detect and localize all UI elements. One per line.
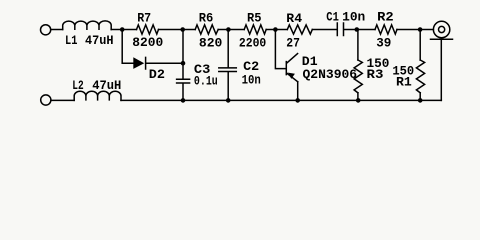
svg-text:2200: 2200 <box>239 35 267 50</box>
wire D2 cathode to node G <box>147 62 184 64</box>
wire node A down to D2 anode <box>122 30 133 64</box>
svg-text:10n: 10n <box>342 10 365 25</box>
wire node F down to R1 <box>419 30 421 61</box>
inductor L2 <box>74 91 121 100</box>
terminal J3 (bottom-left input connector) <box>41 95 51 105</box>
node L junction dot (R1/bottom rail) <box>418 98 423 103</box>
resistor R5 <box>244 25 266 34</box>
svg-text:L1: L1 <box>65 33 78 48</box>
wire node C down to C2 <box>227 30 229 68</box>
node G junction dot (D2/C3 column) <box>181 61 186 66</box>
inductor L1 <box>63 21 111 30</box>
resistor R4 <box>287 25 312 34</box>
svg-text:D2: D2 <box>149 67 165 82</box>
resistor R3 (vertical) <box>354 60 362 93</box>
svg-text:R2: R2 <box>377 10 394 25</box>
wire R6 to node C <box>218 29 244 31</box>
resistor R2 <box>375 25 397 34</box>
wire R3 to bottom rail <box>357 93 359 101</box>
wire node B down through node G to C3 <box>182 30 184 79</box>
svg-text:8200: 8200 <box>132 35 163 50</box>
wire J2 ground down to bottom rail <box>440 40 442 101</box>
wire Q1 emitter to bottom rail <box>297 82 299 101</box>
transistor D1 emitter arrowhead <box>288 73 295 79</box>
wire L1 to node A <box>111 29 136 31</box>
diode D2 cathode bar <box>145 57 147 69</box>
svg-text:R3: R3 <box>367 67 384 82</box>
wire bottom terminal to L2 <box>51 99 74 101</box>
node C junction dot (R6/R5/C2) <box>226 27 231 32</box>
node K junction dot (R3/bottom rail) <box>356 98 361 103</box>
wire R2 to node F <box>397 29 433 31</box>
svg-text:L2: L2 <box>72 78 84 93</box>
node A junction dot (L1/R7/D2) <box>120 27 125 32</box>
connector J2 ground bar <box>431 38 453 40</box>
transistor D1 collector stroke (open) <box>287 54 298 63</box>
wire C3 to bottom rail <box>182 84 184 101</box>
node I junction dot (C2/bottom rail) <box>226 98 231 103</box>
wire R1 to bottom rail <box>419 93 421 101</box>
wire node D down to Q1 base <box>275 30 285 69</box>
svg-text:47uH: 47uH <box>85 33 114 48</box>
capacitor C2 plates <box>219 68 237 72</box>
node D junction dot (R5/R4/Q base) <box>273 27 278 32</box>
transistor D1 emitter stroke <box>287 73 298 82</box>
svg-text:R4: R4 <box>286 11 302 26</box>
svg-text:10n: 10n <box>242 73 261 88</box>
connector J2 (coax output jack) outer ring <box>433 21 449 37</box>
svg-text:39: 39 <box>376 35 391 50</box>
wire C1 to node E <box>345 29 376 31</box>
node E junction dot (C1/R2/R3) <box>355 27 360 32</box>
capacitor C3 plates <box>177 79 190 83</box>
terminal J1 (top-left input connector) <box>41 25 51 35</box>
resistor R1 (vertical) <box>416 60 424 93</box>
wire top-left terminal to L1 <box>51 29 63 31</box>
bottom ground rail wire <box>121 99 441 101</box>
wire R5 to node D <box>266 29 287 31</box>
svg-text:820: 820 <box>199 35 223 50</box>
svg-text:27: 27 <box>286 35 300 50</box>
wire C2 to bottom rail <box>227 72 229 100</box>
resistor R7 <box>137 25 159 34</box>
wire R4 to C1 <box>312 29 336 31</box>
node F junction dot (R2/R1/J2) <box>418 27 423 32</box>
node J junction dot (emitter/bottom rail) <box>295 98 300 103</box>
connector J2 inner pin circle <box>439 26 445 32</box>
resistor R6 <box>195 25 218 34</box>
wire R7 to node B <box>159 29 196 31</box>
wire node E down to R3 <box>357 30 359 61</box>
node H junction dot (C3/bottom rail) <box>181 98 186 103</box>
svg-text:C1: C1 <box>326 10 339 25</box>
svg-text:Q2N3906: Q2N3906 <box>303 67 358 82</box>
svg-text:R1: R1 <box>396 75 412 90</box>
diode D2 triangle <box>133 57 144 69</box>
svg-text:R6: R6 <box>199 10 214 25</box>
svg-text:47uH: 47uH <box>92 78 121 93</box>
capacitor C1 <box>337 23 343 36</box>
svg-text:R7: R7 <box>137 11 151 26</box>
transistor D1 base bar <box>285 62 287 75</box>
node B junction dot (R7/R6/C3) <box>180 27 185 32</box>
svg-text:0.1u: 0.1u <box>194 74 218 89</box>
svg-text:R5: R5 <box>247 10 262 25</box>
